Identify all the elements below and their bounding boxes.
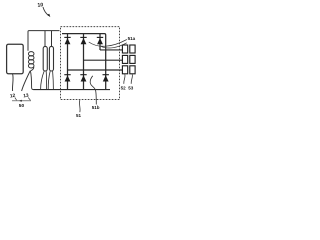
wire phase row 3 bbox=[68, 69, 123, 71]
node 50 bracket bbox=[12, 100, 31, 102]
wire leg 1 bbox=[67, 34, 69, 90]
node 51a label bbox=[128, 36, 136, 41]
wire bottom bus bbox=[34, 89, 111, 91]
wire stator drop 2 bbox=[51, 31, 53, 47]
wire leg 3 upper bbox=[99, 34, 101, 50]
leader arrow for 10 bbox=[43, 7, 50, 17]
diode D3 top bbox=[97, 37, 103, 44]
svg-text:50: 50 bbox=[19, 103, 25, 109]
field coil L1 bbox=[28, 52, 34, 71]
svg-text:51b: 51b bbox=[92, 105, 100, 110]
wire coil to bus bbox=[30, 71, 33, 90]
terminal T1b bbox=[130, 45, 135, 53]
terminal T2b bbox=[130, 55, 135, 63]
leader 51b bbox=[90, 76, 96, 105]
rectifier 51 dashed box bbox=[61, 27, 120, 100]
wire W1 lead b bbox=[45, 71, 47, 90]
node 13 label bbox=[23, 93, 30, 101]
wire top bus B+ bbox=[62, 34, 106, 90]
leader 51a long bbox=[89, 40, 127, 47]
terminal T3a bbox=[122, 66, 127, 74]
node 50 label bbox=[19, 103, 25, 109]
wire brush lead 12 from box bbox=[11, 74, 14, 91]
stator winding W2 bbox=[49, 46, 53, 71]
wire leg 2 bbox=[83, 34, 85, 90]
wire brush lead 13 from coil bbox=[22, 71, 31, 91]
diode D2 top bbox=[80, 37, 86, 44]
svg-text:13: 13 bbox=[23, 93, 29, 100]
wire phase row 1 bbox=[100, 49, 122, 51]
wire top feeder bbox=[28, 31, 60, 51]
node 53 label bbox=[128, 86, 134, 91]
wire phase row 2 bbox=[84, 59, 123, 61]
svg-text:51: 51 bbox=[76, 113, 82, 118]
wire W2 lead a bbox=[48, 71, 50, 90]
leader 51a short bbox=[101, 43, 127, 48]
terminal T1a bbox=[122, 45, 127, 53]
svg-text:51a: 51a bbox=[128, 36, 136, 41]
node 52 label bbox=[121, 86, 127, 91]
leader 51 bbox=[79, 100, 82, 112]
terminal T3b bbox=[130, 66, 135, 74]
regulator box (left) bbox=[7, 44, 24, 74]
svg-text:53: 53 bbox=[128, 86, 134, 91]
node 12 label bbox=[10, 93, 17, 100]
diode D5 bottom bbox=[80, 75, 86, 82]
stator winding W1 bbox=[43, 46, 47, 71]
wire stator drop 1 bbox=[44, 31, 46, 47]
node 51 label bbox=[76, 113, 82, 118]
leader 52 bbox=[124, 74, 125, 83]
diode D4 bottom bbox=[64, 75, 70, 82]
diode D1 top bbox=[64, 37, 70, 44]
wire W1 lead a bbox=[41, 71, 45, 90]
svg-text:52: 52 bbox=[121, 86, 127, 91]
node 51b label bbox=[92, 105, 100, 110]
wire W2 lead b bbox=[52, 71, 55, 90]
node 10 label bbox=[37, 2, 43, 9]
leader 53 bbox=[131, 74, 132, 83]
terminal T2a bbox=[122, 55, 127, 63]
diode D6 bottom bbox=[103, 75, 109, 82]
